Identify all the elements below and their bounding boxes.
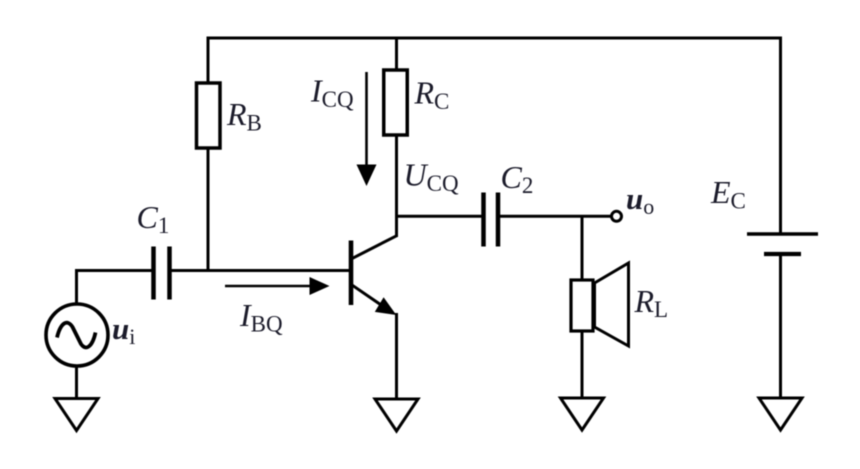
arrow ICQ head (357, 165, 377, 187)
ground (emitter) (375, 399, 418, 431)
ground (RL) (561, 398, 604, 430)
battery EC long plate (747, 232, 818, 235)
wire RB top branch (207, 37, 210, 84)
resistor RC (384, 70, 408, 135)
svg-text:UCQ: UCQ (404, 157, 459, 197)
transistor Q bar (349, 241, 354, 306)
svg-text:IBQ: IBQ (239, 297, 283, 337)
transistor emitter arrowhead (375, 297, 397, 315)
wire collector to C2 (397, 215, 482, 218)
speaker RL horn (595, 263, 629, 346)
svg-text:uo: uo (626, 181, 654, 219)
battery EC short plate (764, 252, 801, 256)
wire right rail down to battery (779, 37, 782, 235)
wire source bottom to ground (75, 365, 78, 399)
arrow IBQ line (225, 285, 312, 288)
sine wave inside source (57, 323, 96, 348)
capacitor C1 (151, 247, 156, 300)
transistor emitter diagonal (352, 285, 385, 307)
arrow IBQ head (310, 277, 330, 295)
svg-text:C1: C1 (137, 199, 170, 238)
ground (battery) (759, 398, 802, 430)
wire RB bottom to base wire (207, 148, 210, 271)
transistor collector diagonal (352, 236, 397, 259)
svg-text:EC: EC (710, 174, 746, 214)
svg-text:ui: ui (112, 311, 135, 349)
wire emitter down (395, 313, 398, 399)
wire base left segment source to C1 (77, 271, 152, 306)
wire RC bottom to collector (395, 135, 398, 237)
resistor RB (197, 83, 221, 148)
source ui AC circle (46, 304, 108, 366)
arrow ICQ line (365, 72, 368, 168)
ground (source) (55, 399, 98, 431)
wire C2 to output terminal (500, 215, 611, 218)
svg-text:ICQ: ICQ (310, 73, 354, 113)
wire top rail (207, 37, 783, 40)
svg-text:RB: RB (226, 96, 262, 136)
node uo terminal circle (612, 211, 622, 221)
wire junction down to RL (581, 216, 584, 280)
wire C1 to transistor base (172, 269, 350, 272)
svg-text:RC: RC (414, 75, 450, 115)
wire RL to ground (581, 331, 584, 398)
wire RC top branch (395, 37, 398, 71)
svg-text:C2: C2 (501, 159, 534, 198)
speaker RL rect (571, 280, 593, 331)
wire battery to ground (779, 254, 782, 398)
svg-text:RL: RL (634, 283, 669, 322)
capacitor C2 (481, 193, 486, 247)
